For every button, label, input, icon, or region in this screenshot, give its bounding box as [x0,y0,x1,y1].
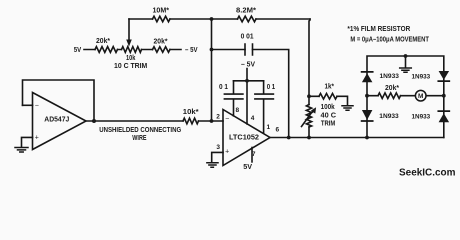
svg-text:– 5V: – 5V [185,47,198,54]
svg-text:20k*: 20k* [96,38,110,45]
svg-text:5V: 5V [74,47,82,54]
svg-text:WIRE: WIRE [132,135,146,142]
svg-text:40 C: 40 C [321,113,337,120]
svg-text:0 1: 0 1 [267,84,276,91]
svg-text:10 C TRIM: 10 C TRIM [114,63,147,70]
svg-text:5V: 5V [243,164,252,171]
svg-text:1N933: 1N933 [380,73,400,80]
svg-text:1N933: 1N933 [379,113,399,120]
svg-text:UNSHIELDED CONNECTING: UNSHIELDED CONNECTING [99,127,181,134]
svg-text:1k*: 1k* [325,84,335,91]
svg-text:10k*: 10k* [183,109,199,116]
svg-text:– 5V: – 5V [241,62,255,69]
svg-text:1N933: 1N933 [412,73,431,80]
svg-text:3: 3 [216,144,220,151]
svg-text:0 01: 0 01 [241,34,254,41]
svg-text:8: 8 [236,107,240,114]
svg-text:10M*: 10M* [153,7,170,14]
svg-text:AD547J: AD547J [44,116,69,123]
svg-text:20k*: 20k* [154,39,168,46]
svg-text:7: 7 [252,151,256,158]
svg-text:M: M [418,93,423,100]
svg-text:LTC1052: LTC1052 [229,135,259,142]
svg-text:M = 0μA–100μA MOVEMENT: M = 0μA–100μA MOVEMENT [350,37,429,44]
svg-text:20k*: 20k* [385,85,399,92]
svg-text:1N933: 1N933 [412,113,431,120]
svg-text:1: 1 [267,124,271,131]
svg-text:SeekIC.com: SeekIC.com [399,167,456,178]
svg-text:+: + [225,149,229,156]
svg-text:10k: 10k [126,55,135,62]
svg-text:4: 4 [251,115,255,122]
svg-text:2: 2 [216,113,220,120]
svg-text:8.2M*: 8.2M* [236,7,256,14]
svg-text:TRIM: TRIM [321,121,336,128]
svg-text:−: − [35,103,39,110]
svg-text:0 1: 0 1 [219,84,228,91]
svg-text:6: 6 [276,127,280,134]
svg-text:+: + [35,135,39,142]
svg-text:*1% FILM RESISTOR: *1% FILM RESISTOR [347,26,410,33]
svg-text:100k: 100k [321,104,335,111]
svg-text:−: − [225,116,229,123]
